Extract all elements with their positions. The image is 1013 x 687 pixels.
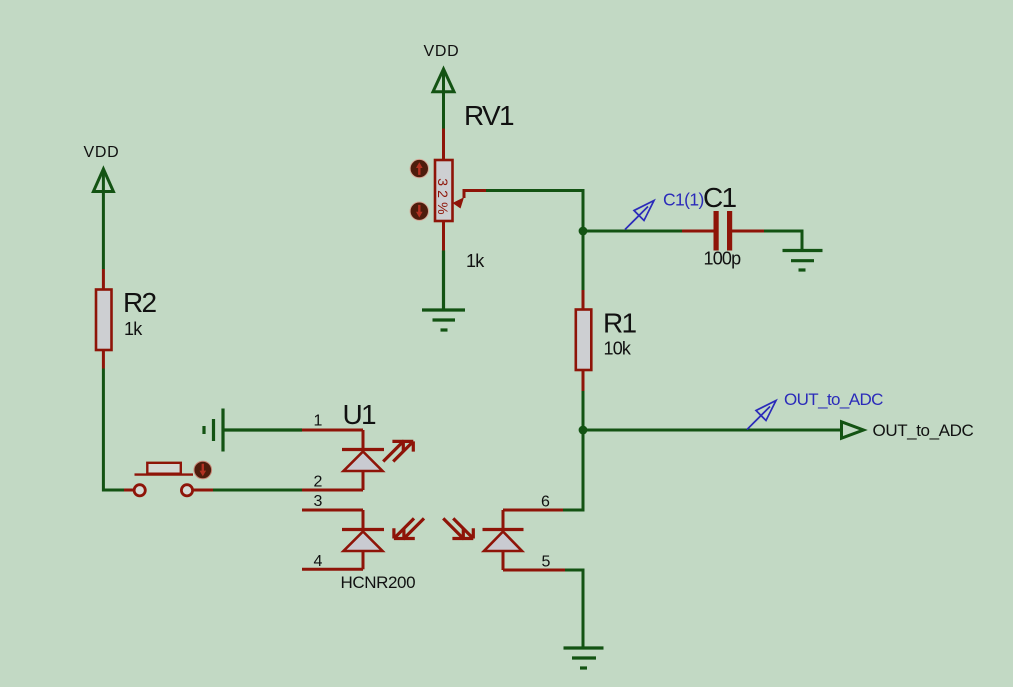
power VDD (top, above RV1) (433, 69, 454, 129)
RV1 decrement control dot (410, 202, 428, 220)
svg-text:R2: R2 (123, 287, 157, 318)
ground (right of C1) (783, 251, 823, 271)
svg-text:1k: 1k (466, 251, 485, 271)
svg-text:1k: 1k (124, 319, 143, 339)
svg-text:1: 1 (314, 413, 323, 430)
wire C1 to ground (764, 231, 802, 250)
U1 photodiode right (pins 5-6) (483, 510, 524, 570)
resistor R1 (576, 290, 592, 391)
ground (left, at U1 pin 1) (204, 409, 302, 452)
U1 pin 6 lead (503, 509, 563, 512)
push button actuator and cap (135, 463, 194, 475)
RV1 increment control dot (410, 159, 428, 177)
resistor R2 (96, 269, 112, 369)
voltage probe C1(1) (625, 201, 654, 230)
svg-text:OUT_to_ADC: OUT_to_ADC (873, 421, 974, 440)
node B junction dot (579, 426, 588, 435)
power VDD (left, above R2) (93, 169, 113, 269)
U1 pin 2 lead (302, 489, 363, 492)
svg-text:2: 2 (314, 474, 323, 491)
photodiode right reception arrows (443, 518, 473, 538)
ground (bottom) (564, 648, 604, 668)
U1 photodiode left (pins 3-4) (342, 510, 384, 569)
wire pin 5 to ground (565, 570, 583, 647)
svg-text:6: 6 (541, 494, 550, 511)
potentiometer RV1 (435, 129, 486, 251)
push button left terminal (124, 485, 145, 496)
wire node B to pin 6 (563, 430, 583, 510)
svg-text:100p: 100p (704, 249, 742, 269)
svg-text:HCNR200: HCNR200 (341, 573, 416, 592)
wire wiper of RV1 to node A (486, 191, 583, 232)
node A junction dot (579, 227, 588, 236)
svg-text:OUT_to_ADC: OUT_to_ADC (784, 390, 883, 409)
wire button to U1 pin 2 (213, 489, 302, 492)
svg-text:U1: U1 (343, 399, 377, 430)
push button right terminal (181, 485, 213, 496)
wire node A to C1 (583, 230, 682, 233)
svg-text:3: 3 (314, 493, 323, 510)
svg-text:RV1: RV1 (464, 100, 514, 131)
wire node A to R1 (582, 231, 585, 290)
svg-text:VDD: VDD (84, 144, 120, 161)
svg-text:4: 4 (314, 553, 323, 570)
svg-text:C1: C1 (703, 182, 737, 213)
U1 pin 4 lead (302, 568, 363, 571)
svg-text:5: 5 (542, 554, 551, 571)
wire R2 to button (103, 369, 124, 491)
svg-text:R1: R1 (603, 308, 637, 339)
ground (below RV1) (422, 251, 465, 331)
wire node B to output terminal (583, 429, 842, 432)
U1 LED emission arrows (383, 441, 413, 461)
svg-text:C1(1): C1(1) (663, 190, 704, 210)
voltage probe OUT_to_ADC (747, 401, 776, 430)
svg-text:VDD: VDD (424, 43, 460, 60)
capacitor C1 (682, 211, 764, 251)
U1 pin 5 lead (503, 569, 565, 572)
photodiode left reception arrows (394, 518, 424, 538)
svg-text:10k: 10k (604, 339, 632, 359)
push button interactive dot (194, 461, 212, 479)
terminal arrow OUT_to_ADC (842, 422, 864, 438)
U1 LED diode (pins 1-2) (342, 430, 384, 490)
svg-text:32%: 32% (435, 178, 451, 219)
U1 pin 3 lead (302, 509, 363, 512)
U1 pin 1 lead (302, 429, 363, 432)
wire R1 to node B (582, 391, 585, 430)
